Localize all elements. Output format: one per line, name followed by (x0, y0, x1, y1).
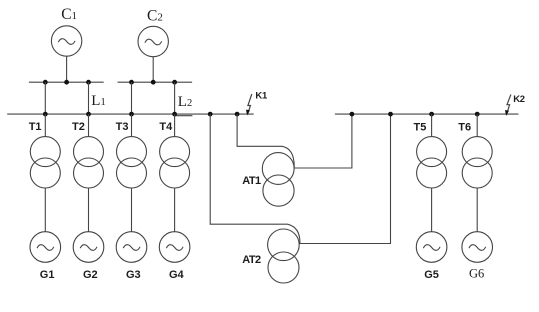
junction main bus at T3 (129, 112, 134, 117)
junction main bus at T2 (86, 112, 91, 117)
junction on bus L2 at T4 (172, 80, 177, 85)
svg-text:G4: G4 (169, 269, 185, 281)
junction main bus at T4 (172, 112, 177, 117)
wire bus to T1 (44, 114, 46, 137)
junction on bus L2 at C2 (151, 80, 156, 85)
wire bus to T3 (131, 114, 133, 137)
autotransformer AT1 (262, 153, 294, 207)
wire T2 to G2 (88, 188, 90, 232)
bus L2 (118, 81, 193, 83)
svg-text:K1: K1 (255, 91, 268, 102)
wire T4 to G4 (174, 188, 176, 232)
wire AT2 to right bus (299, 114, 390, 243)
junction right bus at AT2 (388, 112, 393, 117)
svg-text:T6: T6 (458, 122, 471, 134)
svg-text:C2: C2 (147, 8, 163, 25)
main bus right (335, 113, 519, 115)
transformer T1 (30, 137, 60, 188)
junction right bus at T5 (429, 112, 434, 117)
svg-text:C1: C1 (61, 6, 77, 23)
wire L2 to main bus at T3 (131, 82, 133, 114)
source C1 (51, 26, 81, 56)
wire bus to T6 (476, 114, 478, 137)
wire bus to T5 (431, 114, 433, 137)
wire bus to T4 (174, 114, 176, 137)
junction main bus at AT1 feeder (235, 112, 240, 117)
svg-text:T1: T1 (29, 121, 42, 133)
wire T1 to G1 (44, 188, 46, 232)
wire L2 to main bus at T4 (174, 82, 176, 114)
svg-text:T2: T2 (72, 121, 85, 133)
wire L1 to main bus at T1 (44, 82, 46, 114)
fault K1 (246, 94, 252, 115)
svg-text:G3: G3 (126, 269, 141, 281)
transformer T5 (417, 137, 447, 188)
junction on bus L1 at T2 (86, 80, 91, 85)
junction on bus L2 at T3 (129, 80, 134, 85)
svg-text:G2: G2 (83, 269, 98, 281)
junction on bus L1 at T1 (43, 80, 48, 85)
svg-text:G6: G6 (469, 267, 484, 281)
transformer T3 (117, 137, 147, 188)
source C2 (138, 26, 168, 56)
bus L1 (29, 81, 104, 83)
generator G2 (73, 232, 104, 263)
svg-text:K2: K2 (513, 94, 525, 105)
doubled bus segment under L2 (175, 115, 192, 117)
transformer T2 (74, 137, 104, 188)
svg-text:AT1: AT1 (242, 175, 261, 187)
svg-text:G1: G1 (40, 269, 55, 281)
svg-text:L1: L1 (91, 93, 105, 109)
autotransformer AT2 (268, 229, 300, 283)
junction main bus at T1 (43, 112, 48, 117)
generator G5 (416, 232, 447, 263)
svg-text:AT2: AT2 (242, 254, 261, 266)
svg-text:G5: G5 (424, 269, 439, 281)
generator G1 (30, 232, 61, 263)
svg-text:T3: T3 (116, 121, 129, 133)
generator G3 (116, 232, 147, 263)
junction right bus at T6 (475, 112, 480, 117)
transformer T6 (462, 137, 492, 188)
fault K2 (505, 94, 511, 115)
transformer T4 (160, 137, 190, 188)
generator G4 (159, 232, 190, 263)
wire C1 to bus L1 (66, 56, 68, 82)
svg-text:L2: L2 (178, 94, 192, 110)
wire bus to T2 (88, 114, 90, 137)
main bus left (7, 113, 254, 115)
wire L1 to main bus at T2 (88, 82, 90, 114)
junction right bus at AT1 (350, 112, 355, 117)
wire T6 to G6 (476, 188, 478, 232)
wire C2 to bus L2 (152, 57, 154, 82)
wire main bus to AT1 (237, 114, 294, 167)
wire T3 to G3 (131, 188, 133, 232)
svg-text:T5: T5 (414, 122, 427, 134)
generator G6 (462, 232, 493, 263)
wire T5 to G5 (431, 188, 433, 232)
svg-text:T4: T4 (159, 121, 173, 133)
junction on bus L1 at C1 (64, 80, 69, 85)
wire AT1 to right bus (294, 114, 352, 168)
wire main bus to AT2 (210, 114, 300, 243)
junction main bus at AT2 feeder (208, 112, 213, 117)
